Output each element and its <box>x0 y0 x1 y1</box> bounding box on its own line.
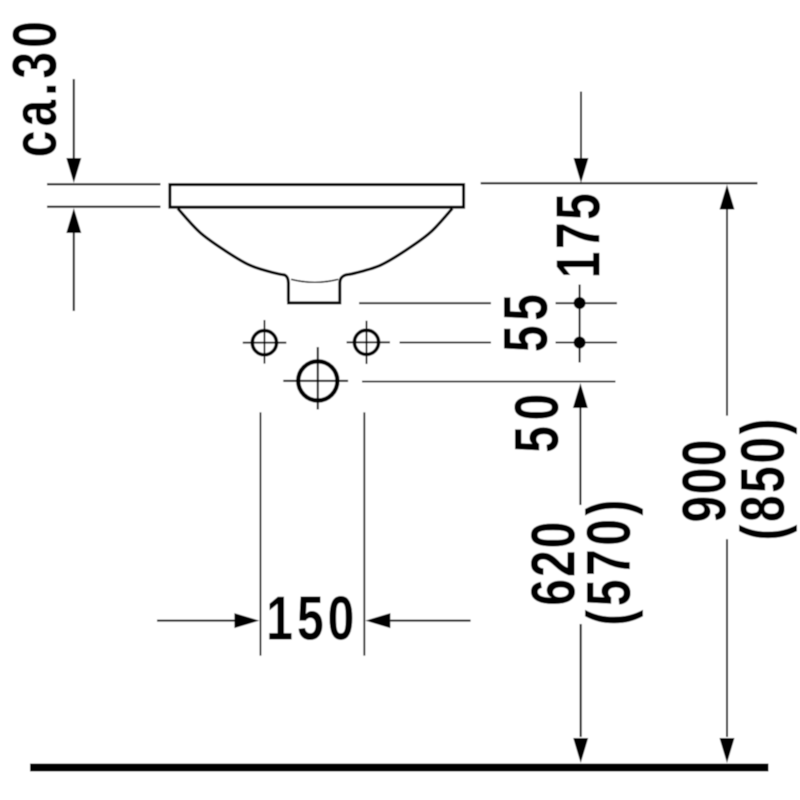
basin bowl outline <box>178 209 453 302</box>
big hole crosshair vertical <box>317 347 319 409</box>
faucet hole left circle <box>252 331 276 355</box>
faucet hole left crosshair vertical <box>263 320 265 364</box>
extension line left (150) <box>259 412 261 655</box>
dimension arrow down (620 bottom) <box>573 738 588 763</box>
top reference line (rim level, right) <box>481 182 758 184</box>
dimension line through dots <box>579 285 581 363</box>
dimension arrow up (900 top) <box>720 185 735 416</box>
extension line right (150) <box>363 412 365 655</box>
svg-text:150: 150 <box>266 584 354 653</box>
dimension dot lower <box>574 337 586 349</box>
faucet hole left crosshair horizontal <box>243 342 286 344</box>
faucet hole level line right segment <box>556 342 618 344</box>
drain inner arc <box>291 279 338 282</box>
svg-text:175: 175 <box>544 193 613 278</box>
countertop top line <box>47 183 161 185</box>
faucet hole right crosshair horizontal <box>347 341 390 343</box>
dimension arrow up (ca.30 lower) <box>66 208 81 311</box>
dimension arrow left-pointing (150 right) <box>365 613 470 628</box>
faucet hole right circle <box>354 330 378 354</box>
dimension arrow down (900 bottom) <box>720 738 735 763</box>
drain level reference line left segment <box>359 302 491 304</box>
big hole level reference line <box>362 381 616 383</box>
dimension arrow down (175) <box>574 92 589 184</box>
dimension arrow down (ca.30 upper) <box>66 79 81 183</box>
svg-text:ca.30: ca.30 <box>0 21 69 157</box>
floor baseline <box>30 764 769 772</box>
big center hole circle <box>298 361 337 400</box>
dimension line lower segment (620) <box>580 624 582 737</box>
drain bottom line <box>287 301 341 304</box>
dimension line lower segment (900) <box>726 539 728 737</box>
dimension arrow up (620 top) <box>573 383 588 505</box>
dimension arrow right-pointing (150 left) <box>157 613 259 628</box>
big hole crosshair horizontal <box>283 380 348 382</box>
basin rim rectangle <box>170 185 464 208</box>
countertop bottom line <box>47 206 161 208</box>
faucet hole right crosshair vertical <box>366 321 368 364</box>
faucet hole level line left segment <box>400 342 492 344</box>
dimension dot upper <box>574 297 586 309</box>
drain level reference line right segment <box>556 302 618 304</box>
